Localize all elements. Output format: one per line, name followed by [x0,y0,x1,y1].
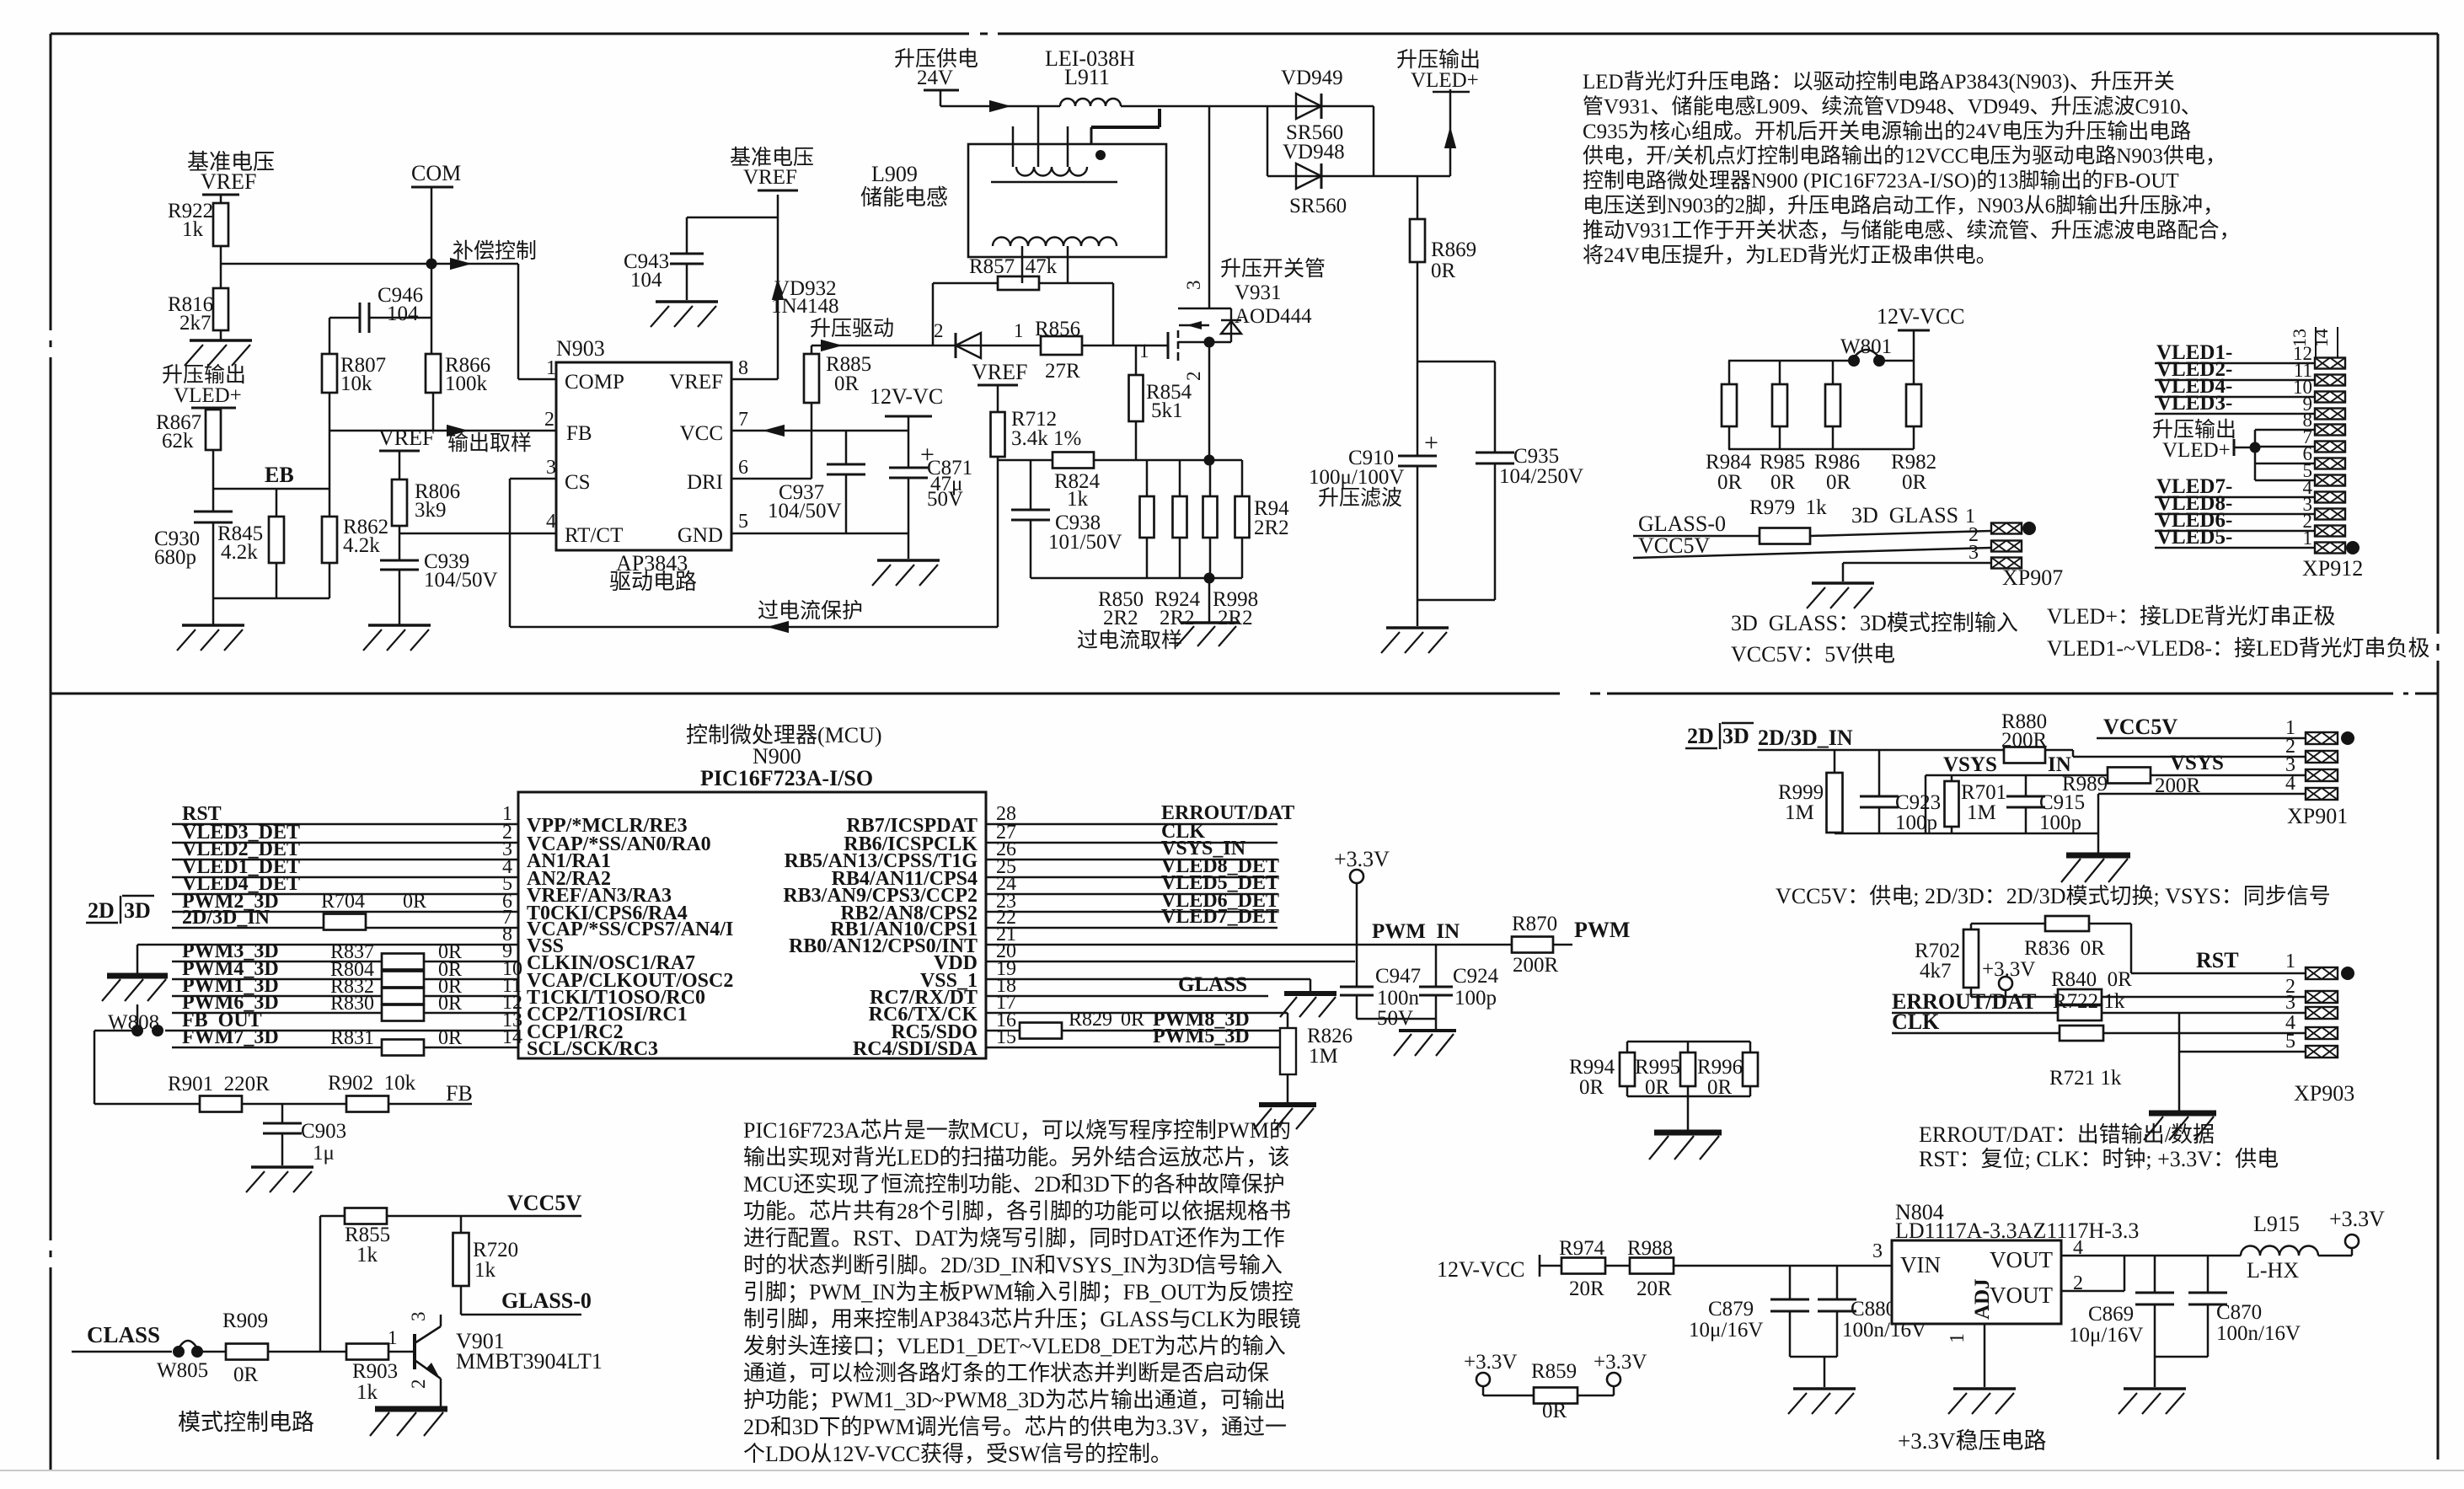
ground under R816 [190,339,252,342]
svg-text:护功能；PWM1_3D~PWM8_3D为芯片输出通道，可输出: 护功能；PWM1_3D~PWM8_3D为芯片输出通道，可输出 [743,1388,1286,1412]
resistor R880 200R [2004,747,2045,763]
wire CS vertical to OCP line [509,479,512,627]
svg-text:VCC5V：供电; 2D/3D：2D/3D模式切换; VSY: VCC5V：供电; 2D/3D：2D/3D模式切换; VSYS：同步信号 [1776,884,2331,908]
svg-text:R859: R859 [1531,1360,1577,1383]
wire R806 to RT/CT line [399,526,401,533]
svg-text:0R: 0R [438,1027,462,1049]
transistor V901 MMBT3904LT1 [413,1334,416,1369]
resistor R854 5k1 [1135,345,1138,375]
resistor R885 0R [811,345,813,354]
wire sense bottom bus [1031,577,1242,580]
resistor R867 62k [206,410,221,450]
resistors R837/R804/R832/R830 on pins 9-12 [382,954,424,970]
svg-text:过电流保护: 过电流保护 [758,599,863,623]
svg-text:104/50V: 104/50V [424,569,498,592]
svg-text:VOUT: VOUT [1990,1247,2053,1272]
transformer L909 box [968,144,1166,257]
wire drain vertical [1208,106,1211,308]
connector XP912 pin [2315,475,2345,486]
node dot sense top [1204,455,1215,466]
wire VLED+ bus to XP912 [2255,429,2315,431]
svg-text:GLASS-0: GLASS-0 [1638,512,1726,536]
svg-text:27R: 27R [1045,360,1080,383]
svg-text:1M: 1M [1309,1045,1338,1068]
wire R922 to compensation node [220,246,222,264]
bottom faint page line [0,1470,2464,1471]
resistor R999 1M [1834,750,1836,773]
svg-text:RC4/SDI/SDA: RC4/SDI/SDA [853,1038,978,1060]
arrow drive right [821,340,843,351]
svg-text:C903: C903 [301,1120,346,1143]
svg-text:VD949: VD949 [1281,67,1343,89]
resistor R701 1M [1951,775,1953,781]
svg-text:VLED5-: VLED5- [2156,526,2232,549]
wire GND pin5 line [731,533,908,535]
svg-text:R869: R869 [1431,238,1476,261]
svg-text:1k: 1k [356,1381,378,1404]
wire ADJ pin1 to ground [1984,1324,1986,1387]
wire pin25 VLED8_DET line [986,876,1278,879]
wire FB_OUT left segment [94,1030,137,1032]
wire PWM IN junction down to C924 [1435,945,1438,987]
connector XP912 pin [2315,375,2345,386]
wire pin20 VDD to +3.3V [986,961,1355,963]
wire RT/CT pin4 line [399,533,556,535]
svg-text:引脚；PWM_IN为主板PWM输入引脚；FB_OUT为反馈控: 引脚；PWM_IN为主板PWM输入引脚；FB_OUT为反馈控 [743,1280,1294,1304]
svg-text:0R: 0R [1770,471,1796,494]
svg-text:功能。芯片共有28个引脚，各引脚的功能可以依据规格书: 功能。芯片共有28个引脚，各引脚的功能可以依据规格书 [743,1199,1291,1224]
svg-text:1: 1 [1014,320,1024,341]
section divider line [51,693,1560,695]
ground VSS_1 (thick) [1284,991,1336,996]
resistor current sense #3 2R2 [1209,460,1212,496]
wire R867 to EB node [212,450,215,489]
svg-text:100k: 100k [445,372,488,395]
op-amp/driver IC N903 AP3843 box [556,362,731,550]
svg-text:15: 15 [996,1026,1016,1048]
svg-text:2D: 2D [88,898,115,923]
wire R974 to R988 [1605,1265,1630,1267]
node dot XP912 pin1 row [2346,541,2360,554]
svg-text:0R: 0R [438,993,462,1015]
wire R885 down to DRI pin6 [811,403,813,479]
svg-text:SCL/SCK/RC3: SCL/SCK/RC3 [527,1038,658,1060]
wire boost drive line [812,345,1168,347]
svg-text:R721 1k: R721 1k [2049,1067,2122,1090]
wire pin26 VSYS_IN line [986,859,1278,861]
svg-text:R995: R995 [1635,1056,1680,1079]
wire R840 line [1971,996,2058,999]
svg-text:GLASS: GLASS [1178,973,1247,996]
svg-text:XP907: XP907 [2002,565,2063,590]
svg-text:VD948: VD948 [1283,141,1345,163]
svg-text:ADJ: ADJ [1971,1278,1994,1320]
svg-text:2D: 2D [1687,724,1714,748]
connector XP912 pin [2315,492,2345,503]
svg-text:12V-VC: 12V-VC [870,384,943,409]
resistor R903 1k [346,1344,388,1360]
svg-text:C870: C870 [2216,1301,2262,1324]
wire R866 to FB line [432,393,435,431]
svg-text:R988: R988 [1627,1237,1673,1260]
svg-text:CLASS: CLASS [87,1322,160,1347]
wire to PWM ground [1435,1019,1438,1031]
capacitor C939 104/50V [399,533,401,560]
svg-text:MCU还实现了恒流控制功能、2D和3D下的各种故障保护: MCU还实现了恒流控制功能、2D和3D下的各种故障保护 [743,1172,1285,1197]
connector XP912 pin [2315,543,2345,554]
svg-text:R979 1k: R979 1k [1749,496,1827,519]
svg-text:EB: EB [265,463,294,487]
svg-text:R994: R994 [1569,1056,1615,1079]
wire pin15 PWM5_3D line [986,1047,1280,1049]
wire R903 to V901 base [388,1351,415,1353]
wire to ground symbol [908,533,910,559]
svg-text:2R2: 2R2 [1103,607,1138,629]
svg-text:ERROUT/DAT：出错输出/数据: ERROUT/DAT：出错输出/数据 [1919,1122,2215,1147]
capacitor C937 104/50V [845,431,848,464]
wire CLASS line [72,1351,172,1353]
svg-text:升压滤波: 升压滤波 [1318,486,1402,510]
svg-text:100n: 100n [1377,987,1420,1010]
wire R826 to ground [1287,1074,1289,1105]
svg-text:1: 1 [1139,340,1149,362]
svg-text:62k: 62k [162,430,194,453]
svg-text:10μ/16V: 10μ/16V [1689,1319,1763,1342]
svg-text:VREF: VREF [201,169,256,194]
svg-text:VCC5V：5V供电: VCC5V：5V供电 [1731,642,1895,667]
svg-text:VLED7_DET: VLED7_DET [1161,906,1279,928]
svg-text:1M: 1M [1785,801,1814,824]
svg-text:VREF: VREF [743,166,797,189]
wire R994 block bottom bus [1627,1095,1750,1098]
wire L911 to diode row [1121,105,1267,108]
wire RST line to XP903 pin1 [2131,972,2306,975]
svg-text:R840 0R: R840 0R [2051,968,2132,991]
svg-text:4k7: 4k7 [1920,960,1952,983]
wire pin8 VSS to W808 ground [137,944,518,946]
svg-text:R722 1k: R722 1k [2053,990,2125,1013]
svg-text:R831: R831 [330,1027,374,1049]
wire pin23 VLED6_DET line [986,911,1278,913]
svg-text:XP901: XP901 [2287,804,2348,828]
wire current-sense node line [998,459,1242,462]
arrow compensation toward N903 [450,258,472,270]
svg-text:3: 3 [1969,542,1979,564]
wire pin27 CLK line [986,842,1278,844]
svg-text:C915: C915 [2039,791,2085,814]
svg-text:0R: 0R [1431,260,1456,282]
ground R994 block (thick) [1654,1130,1722,1136]
svg-text:1: 1 [1947,1333,1969,1343]
wire comp line drop to COMP pin [517,264,520,379]
svg-text:R999: R999 [1778,781,1824,804]
svg-text:输出取样: 输出取样 [447,431,532,455]
resistor R862 4.2k [329,431,331,517]
svg-text:模式控制电路: 模式控制电路 [178,1410,314,1435]
wire bottom bus W801 block [1728,448,1914,451]
svg-text:VREF: VREF [669,371,723,394]
svg-text:3D: 3D [1722,724,1749,748]
svg-text:1μ: 1μ [313,1142,335,1165]
svg-text:4: 4 [546,511,556,533]
border frame top edge [51,33,969,35]
svg-text:VCC5V: VCC5V [1638,533,1710,558]
wire COM to R866 top [431,264,433,354]
wire 12V-VCC to R974 [1540,1265,1561,1267]
svg-text:储能电感: 储能电感 [860,185,948,210]
svg-text:L-HX: L-HX [2247,1258,2299,1283]
svg-text:通道，可以检测各路灯条的工作状态并判断是否启动保: 通道，可以检测各路灯条的工作状态并判断是否启动保 [743,1361,1269,1385]
resistor R995 0R [1687,1042,1690,1052]
svg-text:FWM7_3D: FWM7_3D [182,1026,279,1048]
svg-text:LD1117A-3.3AZ1117H-3.3: LD1117A-3.3AZ1117H-3.3 [1895,1219,2139,1243]
svg-text:0R: 0R [403,891,426,913]
svg-text:+: + [1424,429,1438,457]
svg-text:C947: C947 [1375,965,1421,988]
capacitor C946 104 [329,317,360,319]
transformer polarity dot [1095,150,1106,160]
svg-text:PIC16F723A芯片是一款MCU，可以烧写程序控制PWM: PIC16F723A芯片是一款MCU，可以烧写程序控制PWM的 [743,1118,1291,1143]
svg-text:COM: COM [411,161,461,185]
resistor R856 27R [1041,336,1082,355]
svg-text:RST: RST [2196,948,2239,972]
wire pin16 PWM8_3D with R829 [986,1030,1280,1032]
svg-text:PWM5_3D: PWM5_3D [1153,1026,1250,1047]
svg-text:100p: 100p [1895,811,1937,834]
svg-text:FB: FB [446,1081,473,1106]
wire VCC5V to R720 [460,1216,463,1233]
ground LDO input [1793,1387,1856,1390]
ground LDO output [2124,1387,2186,1390]
resistor R985 0R [1779,361,1781,384]
wire VCC pin7 line [731,430,908,432]
connector XP912 pin [2315,409,2345,420]
svg-text:2: 2 [408,1379,429,1390]
svg-text:VREF: VREF [972,360,1027,384]
svg-text:VLED3-: VLED3- [2156,392,2232,415]
wire XP903 pin5 to ground [2178,1013,2181,1113]
svg-text:R996: R996 [1697,1056,1743,1079]
svg-text:0R: 0R [1707,1076,1733,1099]
svg-text:C935为核心组成。开机后开关电源输出的24V电压为升压输出: C935为核心组成。开机后开关电源输出的24V电压为升压输出电路 [1583,120,2191,143]
ground XP903 (thick) [2149,1111,2216,1117]
wire R994 block top bus [1627,1041,1750,1043]
wire 2D/3D_IN line [1758,749,2004,752]
wire R720 to GLASS-0 line [460,1286,463,1315]
svg-text:2: 2 [544,409,554,431]
jumper W808 on FB_OUT line [131,1025,143,1036]
resistor R702 4k7 [1970,924,1973,929]
resistor R982 0R [1913,361,1915,384]
svg-text:PWM: PWM [1574,918,1630,942]
svg-text:7: 7 [738,409,748,431]
wire pin18 GLASS line [986,995,1268,998]
wire R855 to VCC5V [387,1215,581,1218]
svg-text:VIN: VIN [1900,1252,1941,1277]
resistor R712 3.4k 1% [997,385,999,412]
connector XP903 pins [2306,967,2338,979]
svg-text:L915: L915 [2253,1212,2300,1236]
wire EB horizontal [213,488,329,490]
svg-text:20R: 20R [1636,1277,1672,1300]
wire row1 to row2 vertical [1267,106,1269,176]
svg-text:100n/16V: 100n/16V [2216,1322,2301,1345]
svg-text:1k: 1k [474,1259,496,1282]
wire VOUT pin4 line [2061,1255,2241,1257]
wire R909 to R903 [268,1351,346,1353]
svg-text:N900: N900 [753,744,801,769]
svg-text:R836 0R: R836 0R [2024,937,2105,960]
ground R826 (thick) [1259,1102,1316,1107]
wire VREF to R806 [399,451,401,479]
svg-text:CLK: CLK [1892,1010,1940,1034]
svg-text:R826: R826 [1307,1025,1353,1047]
capacitor C935 104/250V [1494,362,1497,453]
svg-text:VSYS: VSYS [2170,752,2224,774]
svg-text:R974: R974 [1559,1237,1605,1260]
svg-text:GND: GND [678,524,723,547]
svg-text:管V931、储能电感L909、续流管VD948、VD949、: 管V931、储能电感L909、续流管VD948、VD949、升压滤波C910、 [1583,94,2202,118]
svg-text:VCC5V: VCC5V [507,1191,581,1215]
svg-text:R856: R856 [1035,318,1080,340]
svg-text:W805: W805 [157,1359,208,1382]
wire C869/C870 bottom bus [2155,1356,2208,1358]
svg-text:13: 13 [2289,329,2310,347]
svg-text:C880: C880 [1851,1298,1896,1320]
svg-text:12V-VCC: 12V-VCC [1437,1257,1525,1282]
capacitor C870 100n/16V [2207,1256,2210,1293]
svg-text:6: 6 [738,457,748,479]
svg-text:PWM IN: PWM IN [1372,920,1460,943]
svg-text:SR560: SR560 [1289,195,1347,217]
svg-text:VSYS: VSYS [1943,753,1997,776]
svg-text:8: 8 [738,357,748,379]
svg-text:XP912: XP912 [2302,556,2363,581]
ground N903 GND [877,559,940,562]
svg-text:R901 220R: R901 220R [168,1073,270,1095]
wire L915 to +3.3V [2318,1255,2352,1257]
ground under C903 [251,1165,313,1169]
svg-text:PIC16F723A-I/SO: PIC16F723A-I/SO [700,766,873,790]
wire 24V to main line [940,90,942,106]
svg-text:VCC5V: VCC5V [2103,715,2177,739]
svg-text:2k7: 2k7 [179,312,212,335]
resistor R979 1k [1760,528,1810,544]
resistor R831 0R on pin14 [382,1040,424,1056]
wire VREF to R922 [220,195,222,203]
svg-text:+3.3V稳压电路: +3.3V稳压电路 [1898,1428,2046,1454]
border frame right edge [2437,34,2440,634]
svg-text:升压输出: 升压输出 [162,363,246,387]
connector XP912 pin [2315,442,2345,453]
svg-text:RST：复位; CLK：时钟; +3.3V：供电: RST：复位; CLK：时钟; +3.3V：供电 [1919,1147,2279,1171]
svg-text:升压驱动: 升压驱动 [810,317,894,340]
wire VCC5V to XP901 pin1 [2097,737,2306,740]
wire VLED+ vertical bus [2254,430,2257,480]
svg-text:200R: 200R [1513,954,1559,977]
transformer winding stubs top [1037,106,1040,167]
svg-text:R857 47k: R857 47k [969,255,1058,278]
wire R807 to FB line [329,393,331,431]
svg-text:VOUT: VOUT [1990,1283,2053,1308]
wire R855 branch up [319,1216,322,1352]
svg-text:时的状态判断引脚。2D/3D_IN和VSYS_IN为3D信号: 时的状态判断引脚。2D/3D_IN和VSYS_IN为3D信号输入 [743,1253,1283,1277]
diode VD932 1N4148 [956,333,981,358]
wire block to ground [1687,1096,1690,1133]
wire XP901 pin4 to ground [2098,793,2306,795]
svg-text:VREF: VREF [378,426,434,450]
svg-text:R702: R702 [1915,940,1960,962]
svg-text:GLASS-0: GLASS-0 [501,1288,592,1313]
wire pin21 PWM IN line [986,944,1436,946]
resistor R824 1k [1053,453,1094,469]
LDO N804 box [1892,1240,2061,1324]
svg-text:2: 2 [1183,372,1204,382]
svg-text:V931: V931 [1235,281,1282,304]
svg-text:+3.3V: +3.3V [2329,1207,2385,1231]
wire EB bottom bus [213,597,329,600]
wire cap bottom bus [1357,1018,1436,1020]
wire FB sampling line to pin2 [329,430,556,432]
svg-text:电压送到N903的2脚，升压电路启动工作，N903从6脚输出: 电压送到N903的2脚，升压电路启动工作，N903从6脚输出升压脉冲， [1583,194,2224,217]
ground ADJ [1953,1387,2016,1390]
svg-text:2: 2 [934,320,944,341]
svg-text:R985: R985 [1760,451,1805,474]
wire VLED+ to R867 [212,408,215,410]
connector XP912 pin [2315,509,2345,520]
connector XP912 pin [2315,392,2345,403]
ground under C930 bus [182,624,244,627]
ground V901 emitter (thick) [375,1406,447,1412]
svg-text:N903: N903 [556,336,605,361]
resistor R988 20R [1630,1258,1674,1274]
svg-text:LED背光灯升压电路：以驱动控制电路AP3843(N903): LED背光灯升压电路：以驱动控制电路AP3843(N903)、升压开关 [1583,70,2175,94]
svg-text:0R: 0R [1121,1009,1144,1031]
jumper W801 [1848,355,1860,367]
svg-text:R984: R984 [1706,451,1752,474]
wire W808 ground stem to jumper [137,1004,139,1031]
arrow VREF up [772,278,784,300]
capacitor C938 101/50V [1030,460,1032,510]
capacitor C880 100n/16V [1836,1266,1839,1299]
resistor R836 0R loop [1971,923,2045,925]
node dot XP903 pin1 [2341,967,2354,980]
svg-text:RT/CT: RT/CT [565,524,623,547]
wire pin8 VREF stub [731,378,778,381]
svg-text:AOD444: AOD444 [1235,305,1312,328]
svg-text:升压开关管: 升压开关管 [1220,257,1326,281]
svg-text:2D/3D_IN: 2D/3D_IN [182,907,271,929]
svg-text:+3.3V: +3.3V [1594,1351,1647,1374]
wire compensation line [221,263,518,265]
wire 12V-VCC drop [1913,330,1915,361]
svg-text:680p: 680p [154,546,196,569]
wire C910/C935 bottom link [1417,599,1495,602]
svg-text:101/50V: 101/50V [1048,531,1122,554]
capacitor C923 100p [1878,750,1881,796]
svg-text:W801: W801 [1840,335,1892,358]
svg-text:FB: FB [566,422,592,445]
capacitor C871 47u/50V polarized [908,431,910,468]
svg-text:1: 1 [546,357,556,379]
svg-text:进行配置。RST、DAT为烧写引脚，同时DAT还作为工作: 进行配置。RST、DAT为烧写引脚，同时DAT还作为工作 [743,1226,1285,1251]
resistor R909 0R [226,1344,268,1360]
node dot XP901 pin1 [2341,731,2354,745]
svg-text:24V: 24V [917,67,953,89]
svg-text:4.2k: 4.2k [343,534,380,557]
svg-text:VLED1-~VLED8-：接LED背光灯串负极: VLED1-~VLED8-：接LED背光灯串负极 [2047,636,2430,661]
capacitor C910 100u/100V polarized [1417,362,1419,456]
